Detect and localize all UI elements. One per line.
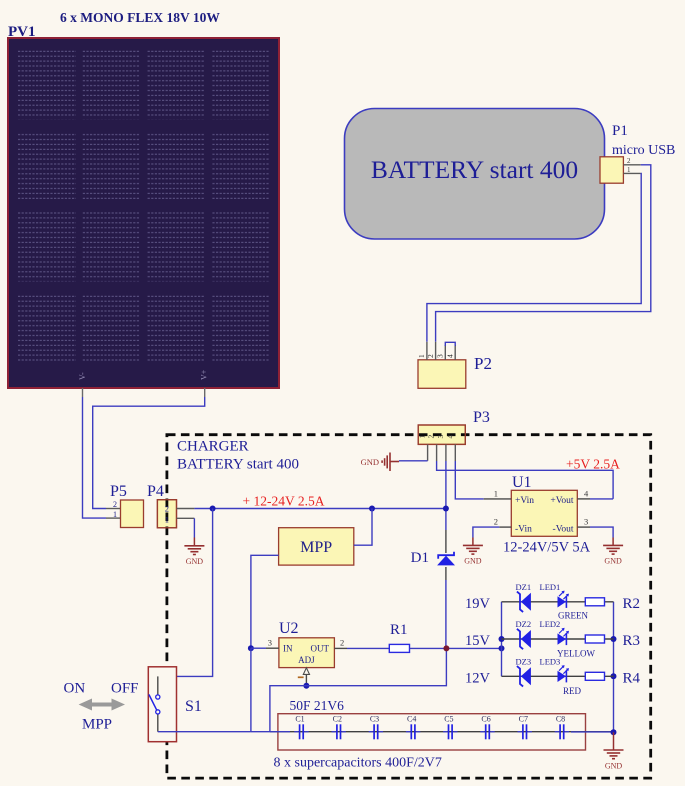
svg-text:8 x supercapacitors 400F/2V7: 8 x supercapacitors 400F/2V7 (274, 756, 442, 771)
solar panel PV1 (8, 38, 279, 388)
svg-text:U1: U1 (512, 474, 532, 491)
connector P3 border and pins (418, 425, 466, 461)
svg-text:R2: R2 (623, 596, 641, 612)
wire P3 pin4 to U1 pin1 (455, 461, 483, 499)
capacitor C4 (407, 715, 416, 740)
svg-text:12V: 12V (465, 671, 491, 687)
svg-text:PV1: PV1 (8, 24, 36, 40)
label DZ1 (516, 582, 532, 592)
label PV1 (8, 24, 36, 40)
svg-text:1: 1 (113, 510, 117, 519)
svg-text:1: 1 (417, 354, 426, 358)
LED LED3 (558, 665, 570, 682)
svg-text:12-24V/5V 5A: 12-24V/5V 5A (503, 540, 591, 556)
svg-text:+Vin: +Vin (515, 496, 534, 506)
svg-text:3: 3 (268, 638, 272, 648)
svg-text:3: 3 (584, 517, 588, 527)
label R4 (623, 671, 641, 687)
svg-text:15V: 15V (465, 633, 491, 649)
connector P3 (418, 425, 465, 444)
svg-text:OUT: OUT (311, 644, 330, 654)
panel title 6 x MONO FLEX 18V 10W (60, 10, 220, 25)
junction U2 pin3 (248, 645, 254, 651)
svg-text:MPP: MPP (82, 717, 112, 733)
junction ADJ node (303, 683, 309, 689)
svg-text:V+: V+ (200, 369, 209, 380)
battery pack (345, 109, 605, 240)
supercapacitor box (278, 714, 586, 750)
capacitor C3 (370, 715, 379, 740)
wire P3 pin2 +5V rail (437, 461, 613, 499)
svg-text:2: 2 (165, 504, 169, 514)
svg-text:3: 3 (436, 435, 445, 439)
svg-text:50F 21V6: 50F 21V6 (290, 698, 345, 713)
resistor R4 (585, 672, 604, 680)
svg-text:S1: S1 (185, 698, 202, 715)
connector P1 (600, 157, 641, 183)
resistor R2 (585, 598, 604, 606)
panel terminal V+ (200, 369, 209, 380)
zener DZ3 (517, 666, 531, 686)
svg-text:MPP: MPP (300, 539, 332, 556)
capacitor C8 (556, 715, 565, 740)
block MPP (279, 528, 354, 565)
svg-text:19V: 19V (465, 596, 491, 612)
wire P1 pin1 to P2 pin1 (427, 173, 641, 341)
junction rail at MPP tap (369, 506, 375, 512)
capacitor C6 (481, 715, 490, 740)
svg-text:4: 4 (446, 435, 455, 439)
wire P3 pin1 to GND tap (399, 460, 428, 462)
svg-text:D1: D1 (411, 550, 429, 566)
capacitor C5 (444, 715, 453, 740)
svg-text:LED1: LED1 (540, 582, 561, 592)
label YELLOW (557, 649, 595, 659)
switch S1 (148, 667, 176, 742)
svg-text:DZ2: DZ2 (516, 619, 532, 629)
junction left bus row2 (499, 636, 505, 642)
ground GND sideways at P3 (382, 453, 399, 472)
svg-text:BATTERY start 400: BATTERY start 400 (177, 457, 299, 473)
svg-text:+5V 2.5A: +5V 2.5A (566, 457, 620, 472)
svg-text:GREEN: GREEN (558, 611, 588, 621)
wire S1 bottom to supercap chain (158, 731, 251, 733)
svg-text:1: 1 (165, 515, 169, 525)
svg-text:GND: GND (604, 557, 622, 566)
svg-text:-Vout: -Vout (553, 525, 574, 535)
capacitor C7 (519, 715, 528, 740)
junction chain to ground (611, 729, 617, 735)
label R3 (623, 633, 641, 649)
label R2 (623, 596, 641, 612)
svg-text:ON: ON (64, 681, 86, 697)
svg-text:R4: R4 (623, 671, 641, 687)
svg-text:GND: GND (186, 557, 204, 566)
wire ground stub bottom right (613, 732, 615, 750)
svg-text:P1: P1 (612, 123, 628, 139)
svg-text:4: 4 (445, 354, 454, 358)
switch direction arrow (79, 699, 125, 711)
wire panel plus to P5 pin2 (93, 388, 205, 509)
wire P3 pin3 main vertical (445, 461, 447, 648)
zener DZ2 (517, 629, 531, 649)
wire LED right bus (613, 602, 615, 733)
label DZ2 (516, 619, 532, 629)
junction right bus row3 (611, 673, 617, 679)
svg-text:R1: R1 (390, 622, 408, 638)
svg-text:CHARGER: CHARGER (177, 439, 249, 455)
svg-text:1: 1 (627, 166, 631, 174)
label P4 (147, 483, 164, 500)
label 8 x supercapacitors 400F/2V7 (274, 756, 442, 771)
label GND at P3 (361, 457, 379, 467)
label P5 (110, 483, 127, 500)
wire row 15V (502, 638, 614, 640)
svg-text:2: 2 (113, 500, 117, 509)
label DZ3 (516, 657, 532, 667)
wire ADJ node right to 15V node (306, 648, 446, 685)
label ON (64, 681, 86, 697)
label RED (563, 686, 582, 696)
label GND at U1 pin2 (464, 557, 482, 566)
label LED2 (540, 619, 561, 629)
svg-text:P5: P5 (110, 483, 127, 500)
junction rail at main vertical (443, 506, 449, 512)
svg-text:C3: C3 (370, 715, 379, 724)
svg-text:IN: IN (283, 644, 293, 654)
junction rail at S1 riser (210, 506, 216, 512)
wire +12-24V rail (177, 508, 446, 510)
wire U2 pin3 node down to chain (250, 648, 252, 732)
svg-text:ADJ: ADJ (298, 655, 315, 665)
label LED3 (540, 657, 561, 667)
label CHARGER (177, 439, 249, 455)
U2 ADJ pin with arrow (298, 668, 310, 686)
svg-text:C8: C8 (556, 715, 565, 724)
ground at P4 (184, 546, 204, 555)
svg-text:LED2: LED2 (540, 619, 561, 629)
ground at U1 pin2 (463, 545, 483, 554)
label 15V (465, 633, 491, 649)
svg-text:2: 2 (340, 638, 344, 648)
svg-text:GND: GND (361, 457, 379, 467)
svg-text:C4: C4 (407, 715, 416, 724)
svg-text:GND: GND (464, 557, 482, 566)
svg-text:+Vout: +Vout (550, 496, 573, 506)
connector P2 (417, 342, 466, 389)
capacitor C2 (333, 715, 342, 740)
wire MPP right to rail (354, 509, 372, 546)
ground at U1 pin3 (603, 545, 623, 554)
wire panel minus to P5 pin1 (83, 388, 121, 518)
svg-text:micro USB: micro USB (612, 143, 675, 158)
label P3 (473, 409, 490, 426)
wire supercap chain (270, 731, 614, 733)
label 50F 21V6 (290, 698, 345, 713)
svg-text:R3: R3 (623, 633, 641, 649)
wire jumper P2 pin3 to pin4 (445, 342, 455, 346)
svg-text:3: 3 (436, 354, 445, 358)
svg-text:U2: U2 (279, 620, 299, 637)
svg-text:P3: P3 (473, 409, 490, 426)
wire P1 pin2 to P2 pin2 (436, 165, 651, 342)
svg-text:V-: V- (78, 372, 87, 380)
svg-text:2: 2 (426, 354, 435, 358)
junction right bus row2 (611, 636, 617, 642)
svg-text:2: 2 (627, 157, 631, 165)
label S1 (185, 698, 202, 715)
label R1 (390, 622, 408, 638)
wire R1 to 15V node (410, 647, 502, 649)
wire U1 pin4 to +5V (590, 498, 613, 500)
svg-text:LED3: LED3 (540, 657, 561, 667)
label GND bottom right (605, 762, 623, 771)
wire U2 pin2 to R1 (347, 647, 389, 649)
label + 12-24V 2.5A (243, 494, 325, 509)
svg-text:2: 2 (427, 435, 436, 439)
label BATTERY start 400 (177, 457, 299, 473)
wire U2 pin3 stub (251, 647, 266, 649)
label U1 (512, 474, 532, 491)
wire LED left bus (501, 602, 503, 677)
svg-text:P4: P4 (147, 483, 164, 500)
panel terminal V- (78, 372, 87, 380)
svg-text:C5: C5 (444, 715, 453, 724)
svg-text:DZ3: DZ3 (516, 657, 532, 667)
resistor R1 (389, 644, 409, 652)
regulator U2 (266, 638, 347, 668)
svg-text:GND: GND (605, 762, 623, 771)
zener DZ1 (517, 592, 531, 612)
LED LED1 (558, 591, 570, 608)
resistor R3 (585, 635, 604, 643)
wire P4 pin1 to ground (177, 518, 195, 546)
label 19V (465, 596, 491, 612)
capacitor C1 (295, 715, 304, 740)
wire chain blue right (571, 731, 614, 733)
svg-text:DZ1: DZ1 (516, 582, 532, 592)
svg-text:OFF: OFF (111, 681, 139, 697)
label D1 (411, 550, 429, 566)
ground bottom right (604, 750, 624, 759)
wire row 19V (502, 601, 614, 603)
junction LED bus feed (499, 645, 505, 651)
wire U1 pin3 to ground (590, 527, 613, 545)
svg-text:C2: C2 (333, 715, 342, 724)
svg-text:+ 12-24V 2.5A: + 12-24V 2.5A (243, 494, 325, 509)
svg-text:C1: C1 (295, 715, 304, 724)
svg-text:C6: C6 (481, 715, 490, 724)
connector P4 (157, 500, 176, 528)
label micro USB (612, 143, 675, 158)
svg-text:BATTERY start 400: BATTERY start 400 (371, 155, 578, 184)
svg-text:-Vin: -Vin (515, 525, 532, 535)
wire row 12V (502, 675, 614, 677)
svg-text:6 x MONO FLEX 18V 10W: 6 x MONO FLEX 18V 10W (60, 10, 220, 25)
svg-text:P2: P2 (474, 354, 492, 373)
diode D1 zener (437, 552, 455, 566)
label GREEN (558, 611, 588, 621)
label P1 (612, 123, 628, 139)
svg-text:YELLOW: YELLOW (557, 649, 595, 659)
label U2 (279, 620, 299, 637)
LED LED2 (558, 628, 570, 645)
charger dashed border (167, 435, 651, 778)
wire chain blue left (251, 731, 290, 733)
label GND at P4 (186, 557, 204, 566)
label MPP mode (82, 717, 112, 733)
label +5V 2.5A (566, 457, 620, 472)
svg-text:C7: C7 (519, 715, 528, 724)
label GND at U1 pin3 (604, 557, 622, 566)
wire MPP left down to U2 node (251, 555, 279, 648)
label OFF (111, 681, 139, 697)
connector P5 (113, 500, 144, 528)
label P2 (474, 354, 492, 373)
svg-text:2: 2 (494, 517, 498, 527)
wire U1 pin2 to ground (473, 527, 499, 545)
regulator U1 (484, 489, 590, 537)
wire ADJ node left to chain left end (270, 686, 307, 732)
connector P4 outline (157, 500, 176, 528)
wire chain blue plate stubs (294, 731, 569, 733)
svg-text:1: 1 (494, 489, 498, 499)
label 12V (465, 671, 491, 687)
svg-text:RED: RED (563, 686, 582, 696)
svg-text:1: 1 (418, 435, 427, 439)
wire S1 riser (158, 509, 213, 677)
label 12-24V/5V 5A (503, 540, 591, 556)
junction 15V node (443, 645, 449, 651)
label LED1 (540, 582, 561, 592)
